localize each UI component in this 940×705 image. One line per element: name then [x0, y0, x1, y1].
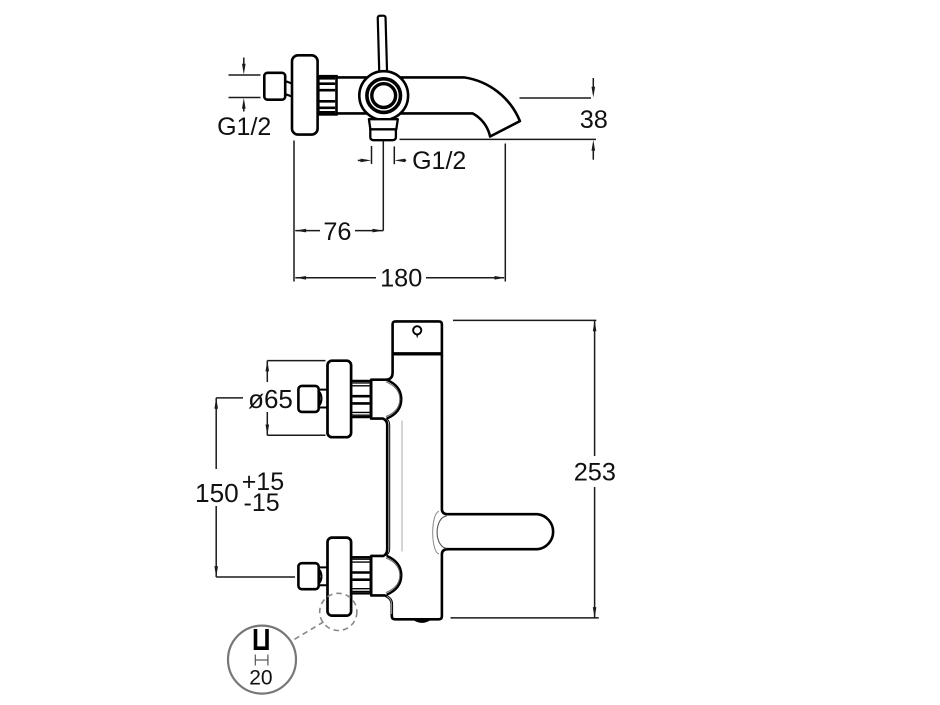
top assembly: threaded block	[351, 381, 370, 417]
svg-text:38: 38	[580, 106, 608, 134]
180 dimension	[295, 144, 505, 282]
svg-text:G1/2: G1/2	[217, 113, 271, 141]
body silhouette with lever	[371, 321, 553, 619]
outlet below body (G1/2 nipple)	[369, 119, 398, 129]
keyhole mark	[413, 326, 421, 334]
left check-valve knob	[264, 73, 285, 100]
escutcheon dome (top)	[387, 380, 402, 419]
inner contour lines between escutcheons	[386, 419, 390, 556]
cap separator line	[393, 352, 442, 355]
top assembly: stem	[319, 390, 328, 408]
knob G1/2 arrows	[243, 58, 245, 66]
150 +15/-15 dimension	[216, 398, 295, 577]
top assembly: knob	[298, 386, 318, 412]
bottom assembly: threaded block	[351, 557, 370, 593]
wall plate	[292, 55, 318, 134]
20 dimension ticks	[255, 655, 268, 666]
lever collar arcs	[437, 516, 446, 548]
svg-text:180: 180	[380, 265, 422, 293]
dia 65 dimension	[267, 361, 325, 436]
knob G1/2 reference lines	[229, 75, 261, 98]
253 dimension	[451, 320, 599, 618]
body band and spout outline	[337, 77, 520, 136]
bottom assembly: knob	[298, 563, 318, 589]
bottom assembly: stem	[319, 567, 328, 585]
76 dimension	[294, 141, 383, 282]
38 dimension lines	[400, 78, 597, 160]
detail dashed circle on lower wheel	[320, 593, 357, 630]
valve circle (cartridge cap)	[359, 71, 408, 120]
svg-text:G1/2: G1/2	[412, 147, 466, 175]
svg-text:76: 76	[323, 218, 351, 246]
U bracket in detail	[256, 629, 268, 648]
top assembly: wheel	[328, 361, 352, 438]
detail circle	[228, 626, 296, 694]
taper between knob and plate	[285, 81, 292, 97]
svg-text:253: 253	[574, 458, 616, 486]
svg-text:-15: -15	[244, 489, 280, 517]
handle rod	[378, 16, 387, 74]
dashed leader line	[295, 622, 324, 639]
svg-text:20: 20	[249, 667, 272, 690]
svg-text:150: 150	[195, 478, 239, 508]
bottom outlet bump	[415, 619, 430, 621]
threaded wall connector (side view)	[318, 76, 336, 114]
bottom assembly: wheel	[328, 538, 352, 616]
outlet G1/2 dimension	[358, 141, 406, 231]
escutcheon dome (bottom)	[387, 556, 402, 595]
svg-text:ø65: ø65	[248, 384, 293, 414]
